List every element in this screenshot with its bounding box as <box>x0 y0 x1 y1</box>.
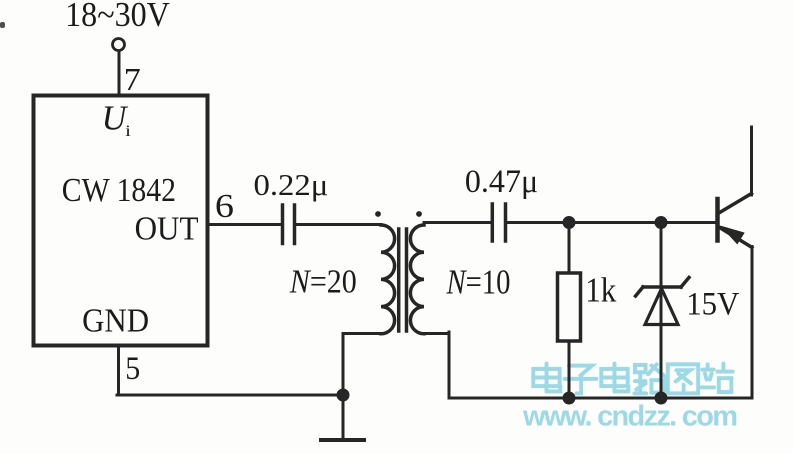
svg-text:0.47μ: 0.47μ <box>465 163 538 199</box>
svg-text:i: i <box>125 123 131 140</box>
svg-text:U: U <box>102 99 129 138</box>
svg-text:6: 6 <box>215 187 234 225</box>
svg-text:OUT: OUT <box>135 210 199 248</box>
svg-text:N=10: N=10 <box>446 263 511 301</box>
svg-text:1k: 1k <box>585 272 617 310</box>
svg-text:7: 7 <box>124 63 141 98</box>
svg-text:5: 5 <box>125 350 140 387</box>
svg-text:0.22μ: 0.22μ <box>254 168 329 202</box>
svg-text:CW 1842: CW 1842 <box>62 171 176 208</box>
svg-text:www. cndzz. com: www. cndzz. com <box>522 401 738 433</box>
svg-text:GND: GND <box>82 302 149 340</box>
svg-text:18~30V: 18~30V <box>65 0 170 34</box>
svg-text:N=20: N=20 <box>289 262 357 300</box>
svg-text:15V: 15V <box>686 284 739 321</box>
